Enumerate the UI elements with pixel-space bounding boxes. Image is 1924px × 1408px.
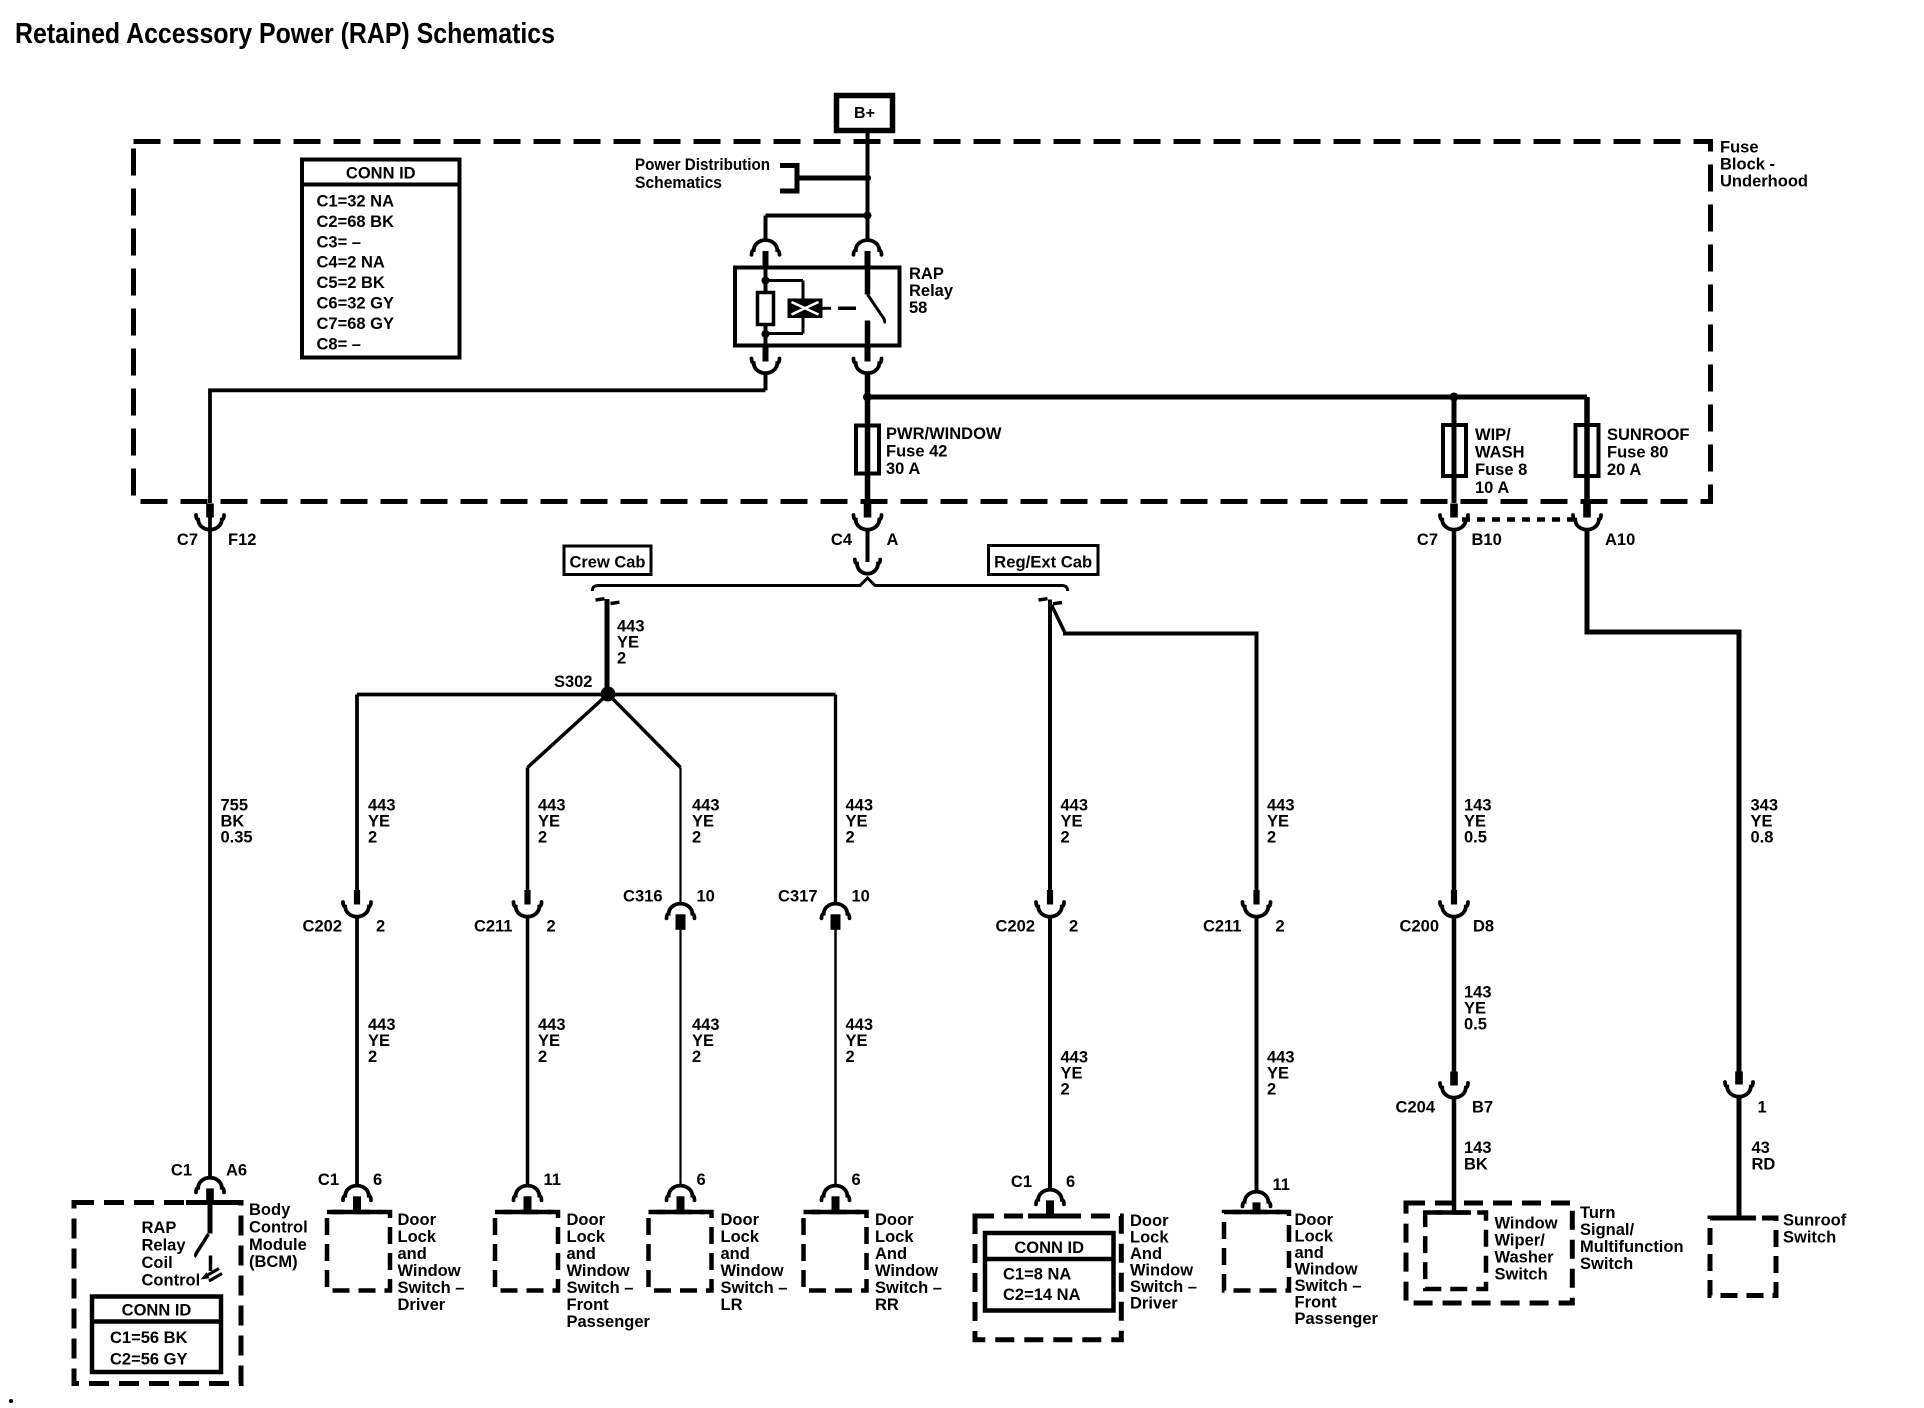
- svg-text:(BCM): (BCM): [249, 1253, 298, 1271]
- svg-text:Switch –: Switch –: [875, 1279, 942, 1297]
- svg-text:C7: C7: [1417, 531, 1438, 549]
- svg-text:2: 2: [692, 1048, 701, 1066]
- svg-text:B7: B7: [1472, 1099, 1493, 1117]
- svg-text:Fuse: Fuse: [1720, 139, 1759, 157]
- svg-text:C7: C7: [177, 531, 198, 549]
- svg-text:RR: RR: [875, 1296, 899, 1314]
- svg-text:Window: Window: [721, 1262, 784, 1280]
- svg-text:Lock: Lock: [398, 1228, 437, 1246]
- svg-text:6: 6: [1066, 1173, 1075, 1191]
- svg-text:0.5: 0.5: [1464, 829, 1487, 847]
- svg-text:Lock: Lock: [721, 1228, 760, 1246]
- svg-text:30 A: 30 A: [886, 460, 920, 478]
- svg-text:RAP: RAP: [142, 1219, 177, 1237]
- svg-text:Door: Door: [721, 1211, 760, 1229]
- svg-text:C2=14 NA: C2=14 NA: [1003, 1286, 1081, 1304]
- svg-text:Lock: Lock: [875, 1228, 914, 1246]
- svg-text:Switch –: Switch –: [1295, 1277, 1362, 1295]
- svg-text:C3= –: C3= –: [317, 233, 362, 251]
- svg-text:Fuse 8: Fuse 8: [1475, 461, 1527, 479]
- svg-text:WASH: WASH: [1475, 444, 1525, 462]
- svg-text:And: And: [1130, 1245, 1162, 1263]
- svg-text:and: and: [398, 1245, 427, 1263]
- svg-text:0.8: 0.8: [1751, 829, 1774, 847]
- svg-text:Lock: Lock: [1130, 1229, 1169, 1247]
- svg-text:S302: S302: [554, 673, 593, 691]
- svg-text:B10: B10: [1472, 531, 1502, 549]
- svg-text:Washer: Washer: [1495, 1249, 1555, 1267]
- svg-text:C317: C317: [778, 888, 817, 906]
- svg-text:Switch –: Switch –: [1130, 1278, 1197, 1296]
- svg-text:2: 2: [547, 918, 556, 936]
- svg-text:C2=68 BK: C2=68 BK: [317, 213, 395, 231]
- svg-text:A6: A6: [226, 1162, 247, 1180]
- svg-text:Window: Window: [875, 1262, 938, 1280]
- svg-text:Signal/: Signal/: [1580, 1221, 1635, 1239]
- svg-text:F12: F12: [228, 531, 256, 549]
- svg-text:0.35: 0.35: [221, 829, 253, 847]
- svg-text:2: 2: [368, 1048, 377, 1066]
- svg-text:43: 43: [1752, 1139, 1770, 1157]
- svg-text:C4: C4: [831, 531, 853, 549]
- svg-text:6: 6: [697, 1171, 706, 1189]
- svg-text:Reg/Ext Cab: Reg/Ext Cab: [994, 554, 1092, 572]
- svg-text:Turn: Turn: [1580, 1204, 1615, 1222]
- svg-text:C1: C1: [171, 1162, 192, 1180]
- svg-text:Switch –: Switch –: [567, 1279, 634, 1297]
- svg-text:C1=56 BK: C1=56 BK: [110, 1329, 188, 1347]
- svg-text:2: 2: [538, 1048, 547, 1066]
- svg-text:2: 2: [376, 918, 385, 936]
- svg-text:CONN ID: CONN ID: [122, 1302, 192, 1320]
- svg-text:and: and: [567, 1245, 596, 1263]
- svg-text:Fuse 42: Fuse 42: [886, 443, 947, 461]
- svg-text:SUNROOF: SUNROOF: [1607, 426, 1690, 444]
- svg-text:A10: A10: [1605, 531, 1635, 549]
- svg-text:Crew Cab: Crew Cab: [570, 554, 646, 572]
- svg-text:WIP/: WIP/: [1475, 426, 1511, 444]
- svg-text:A: A: [887, 531, 899, 549]
- svg-text:BK: BK: [1464, 1156, 1488, 1174]
- svg-text:0.5: 0.5: [1464, 1016, 1487, 1034]
- svg-text:Window: Window: [1495, 1215, 1558, 1233]
- svg-text:Lock: Lock: [567, 1228, 606, 1246]
- svg-text:Window: Window: [1295, 1261, 1358, 1279]
- svg-text:10: 10: [852, 888, 870, 906]
- svg-text:Window: Window: [1130, 1262, 1193, 1280]
- svg-text:Coil: Coil: [142, 1254, 173, 1272]
- svg-text:LR: LR: [721, 1296, 743, 1314]
- svg-text:2: 2: [368, 829, 377, 847]
- svg-text:2: 2: [1267, 1081, 1276, 1099]
- svg-text:Relay: Relay: [909, 282, 954, 300]
- svg-text:C5=2 BK: C5=2 BK: [317, 274, 385, 292]
- svg-text:and: and: [1295, 1244, 1324, 1262]
- svg-text:11: 11: [544, 1171, 561, 1189]
- svg-text:Underhood: Underhood: [1720, 173, 1808, 191]
- svg-text:C1: C1: [1011, 1173, 1032, 1191]
- svg-text:58: 58: [909, 299, 927, 317]
- svg-text:Door: Door: [1295, 1211, 1334, 1229]
- svg-text:C1=8 NA: C1=8 NA: [1003, 1266, 1071, 1284]
- svg-text:11: 11: [1273, 1176, 1290, 1194]
- svg-text:C211: C211: [474, 918, 513, 936]
- svg-text:2: 2: [1061, 1081, 1070, 1099]
- svg-text:Door: Door: [1130, 1212, 1169, 1230]
- svg-text:C1: C1: [318, 1171, 339, 1189]
- svg-text:Control: Control: [142, 1272, 201, 1290]
- svg-text:Door: Door: [875, 1211, 914, 1229]
- svg-text:Driver: Driver: [398, 1296, 446, 1314]
- svg-text:Driver: Driver: [1130, 1295, 1178, 1313]
- svg-text:Front: Front: [567, 1296, 610, 1314]
- svg-text:C202: C202: [996, 918, 1035, 936]
- svg-text:Relay: Relay: [142, 1237, 187, 1255]
- svg-text:C204: C204: [1396, 1099, 1436, 1117]
- svg-text:Sunroof: Sunroof: [1783, 1212, 1847, 1230]
- svg-text:Control: Control: [249, 1218, 308, 1236]
- svg-text:Schematics: Schematics: [635, 174, 722, 192]
- svg-text:Body: Body: [249, 1201, 291, 1219]
- svg-text:2: 2: [1069, 918, 1078, 936]
- svg-text:2: 2: [538, 829, 547, 847]
- svg-text:Module: Module: [249, 1236, 307, 1254]
- svg-text:6: 6: [852, 1171, 861, 1189]
- svg-text:And: And: [875, 1245, 907, 1263]
- svg-text:Fuse 80: Fuse 80: [1607, 444, 1668, 462]
- svg-text:Wiper/: Wiper/: [1495, 1232, 1546, 1250]
- svg-text:D8: D8: [1473, 918, 1494, 936]
- svg-text:C1=32 NA: C1=32 NA: [317, 193, 395, 211]
- svg-text:B+: B+: [854, 105, 875, 122]
- svg-text:RAP: RAP: [909, 265, 944, 283]
- svg-text:C316: C316: [623, 888, 662, 906]
- svg-text:2: 2: [1276, 918, 1285, 936]
- svg-text:Switch –: Switch –: [721, 1279, 788, 1297]
- svg-text:and: and: [721, 1245, 750, 1263]
- svg-text:CONN ID: CONN ID: [346, 165, 416, 183]
- svg-text:Passenger: Passenger: [567, 1313, 651, 1331]
- svg-text:Multifunction: Multifunction: [1580, 1238, 1684, 1256]
- svg-text:C7=68 GY: C7=68 GY: [317, 315, 395, 333]
- svg-text:Block -: Block -: [1720, 156, 1775, 174]
- svg-text:Front: Front: [1295, 1294, 1338, 1312]
- svg-text:2: 2: [692, 829, 701, 847]
- svg-text:RD: RD: [1752, 1156, 1776, 1174]
- svg-text:2: 2: [617, 650, 626, 668]
- svg-text:1: 1: [1758, 1099, 1767, 1117]
- svg-text:PWR/WINDOW: PWR/WINDOW: [886, 425, 1002, 443]
- svg-text:C4=2 NA: C4=2 NA: [317, 254, 385, 272]
- svg-text:Door: Door: [567, 1211, 606, 1229]
- svg-text:10: 10: [697, 888, 715, 906]
- svg-text:20 A: 20 A: [1607, 461, 1641, 479]
- svg-text:Power Distribution: Power Distribution: [635, 156, 770, 174]
- svg-text:10 A: 10 A: [1475, 479, 1509, 497]
- svg-text:2: 2: [1267, 829, 1276, 847]
- svg-text:143: 143: [1464, 1139, 1492, 1157]
- svg-text:2: 2: [846, 1048, 855, 1066]
- svg-text:C6=32 GY: C6=32 GY: [317, 295, 395, 313]
- svg-text:Switch: Switch: [1580, 1255, 1633, 1273]
- svg-text:C8= –: C8= –: [317, 335, 362, 353]
- svg-text:2: 2: [846, 829, 855, 847]
- svg-text:C200: C200: [1400, 918, 1439, 936]
- svg-text:CONN ID: CONN ID: [1014, 1239, 1084, 1257]
- svg-text:6: 6: [373, 1171, 382, 1189]
- svg-text:Switch: Switch: [1783, 1229, 1836, 1247]
- svg-text:Door: Door: [398, 1211, 437, 1229]
- svg-text:Window: Window: [398, 1262, 461, 1280]
- svg-text:2: 2: [1061, 829, 1070, 847]
- svg-text:Switch –: Switch –: [398, 1279, 465, 1297]
- svg-text:Retained Accessory Power (RAP): Retained Accessory Power (RAP) Schematic…: [15, 18, 555, 50]
- svg-text:C211: C211: [1203, 918, 1242, 936]
- svg-text:Window: Window: [567, 1262, 630, 1280]
- svg-text:Passenger: Passenger: [1295, 1310, 1379, 1328]
- svg-text:Lock: Lock: [1295, 1228, 1334, 1246]
- svg-text:C2=56 GY: C2=56 GY: [110, 1351, 188, 1369]
- svg-text:Switch: Switch: [1495, 1266, 1548, 1284]
- svg-text:C202: C202: [303, 918, 342, 936]
